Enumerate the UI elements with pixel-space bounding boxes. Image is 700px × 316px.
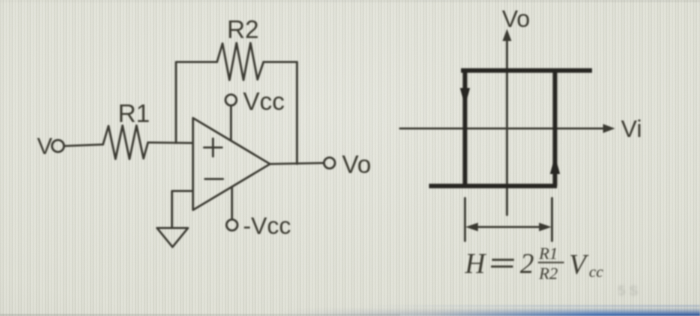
input terminal node — [52, 140, 64, 152]
top dark photo edge — [0, 0, 700, 2]
axis Vi (horizontal) — [400, 127, 607, 129]
arrow down on left transition — [460, 88, 470, 106]
axis Vo arrowhead — [503, 29, 512, 41]
hysteresis bottom output level — [429, 184, 557, 189]
arrow up on right transition — [550, 156, 560, 174]
formula H = 2 R1/R2 Vcc — [464, 244, 603, 283]
terminal -Vcc — [227, 220, 238, 231]
dimension double arrow — [470, 226, 547, 228]
wire R1 to non-inverting input — [148, 141, 193, 144]
wire -Vcc supply to op-amp — [231, 187, 233, 220]
wire input terminal to R1 — [65, 145, 104, 147]
op-amp plus input symbol — [204, 139, 222, 157]
wire +Vcc supply to op-amp — [230, 106, 232, 141]
wire op-amp output — [270, 163, 324, 164]
axis Vo (vertical) — [506, 37, 508, 215]
hysteresis right transition — [553, 71, 558, 187]
faint blue line bottom right — [360, 305, 700, 307]
wire feedback right vertical leg — [296, 62, 298, 164]
axis Vi arrowhead — [603, 124, 615, 133]
op-amp minus input symbol — [205, 178, 223, 180]
wire inverting input to ground — [172, 191, 193, 227]
wire feedback left vertical leg — [176, 62, 217, 143]
ground — [157, 228, 188, 247]
terminal +Vcc — [226, 95, 237, 106]
grey bottom edge left — [0, 314, 400, 316]
dimension tick right — [551, 198, 553, 241]
dimension arrowhead left — [466, 223, 479, 231]
terminal Vo output — [324, 158, 335, 169]
wire R2 to feedback right leg — [264, 61, 298, 63]
faint smudge bottom right — [618, 283, 688, 299]
hysteresis top output level — [461, 68, 592, 73]
resistor R2 — [217, 43, 264, 80]
op-amp U1 — [193, 118, 270, 210]
resistor R1 — [103, 126, 148, 160]
dimension tick left — [464, 198, 466, 241]
dimension arrowhead right — [539, 223, 552, 231]
hysteresis left transition — [463, 71, 468, 187]
bottom blue screen edge band — [0, 307, 700, 316]
